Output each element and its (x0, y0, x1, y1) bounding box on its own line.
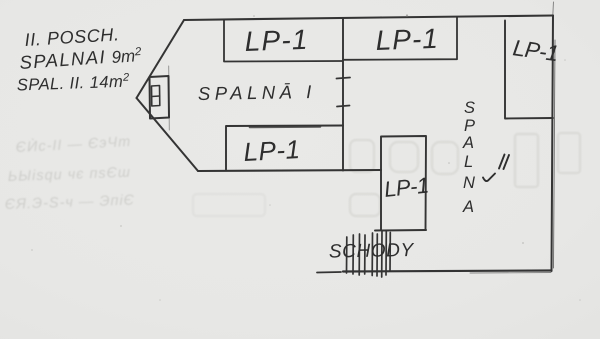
svg-text:S: S (464, 99, 475, 117)
svg-text:L: L (464, 153, 473, 171)
wall right (doubled) (552, 16, 554, 272)
svg-text:P: P (464, 117, 475, 135)
svg-text:N: N (463, 174, 475, 192)
wall bottom (343, 271, 552, 272)
partition tick 2 (337, 106, 350, 107)
wall bottom faint double (470, 272, 551, 275)
stair line 5 (371, 233, 373, 276)
svg-text:LP-1: LP-1 (243, 134, 301, 167)
ghost shapes middle (193, 133, 580, 216)
box LP-1 top-left (224, 21, 343, 62)
stair line 2 (352, 235, 354, 274)
wall diagonal lower-left (137, 98, 199, 171)
wall top (184, 16, 553, 21)
scan speckles (31, 14, 581, 300)
checkmark arrow (483, 174, 495, 182)
mark II (roman two) (483, 155, 509, 182)
svg-text:A: A (462, 134, 474, 152)
ghost bleed-through text rows bottom-left (5, 133, 136, 213)
stair line 7 (381, 231, 383, 278)
stair line 8 (385, 232, 387, 276)
partition tick 1 (337, 78, 351, 79)
stair line 9 (389, 233, 391, 272)
box LP-1 center vertical (375, 136, 426, 231)
svg-text:LP-1: LP-1 (383, 172, 430, 202)
wall diagonal upper-left (137, 20, 185, 98)
box LP-1 mid-left (226, 126, 343, 170)
svg-text:SPALNĀ I: SPALNĀ I (198, 81, 316, 104)
svg-text:LP-1: LP-1 (244, 24, 309, 57)
box LP-1 right (505, 21, 553, 119)
svg-text:LP-1: LP-1 (375, 23, 439, 56)
stair line 3 (358, 234, 360, 275)
svg-text:SPAL. II. 14m2: SPAL. II. 14m2 (16, 72, 129, 95)
stair line 1 (346, 237, 348, 273)
partition wall (342, 19, 344, 171)
box LP-1 top-right (343, 18, 457, 60)
svg-text:A: A (462, 198, 474, 216)
wall bottom left dash (317, 271, 341, 274)
wall top-right overshoot (552, 2, 555, 16)
wall bottom of spalna I (198, 170, 381, 171)
stair line 6 (376, 234, 378, 276)
svg-text:SCHODY: SCHODY (329, 240, 415, 262)
stair line 4 (364, 235, 366, 274)
